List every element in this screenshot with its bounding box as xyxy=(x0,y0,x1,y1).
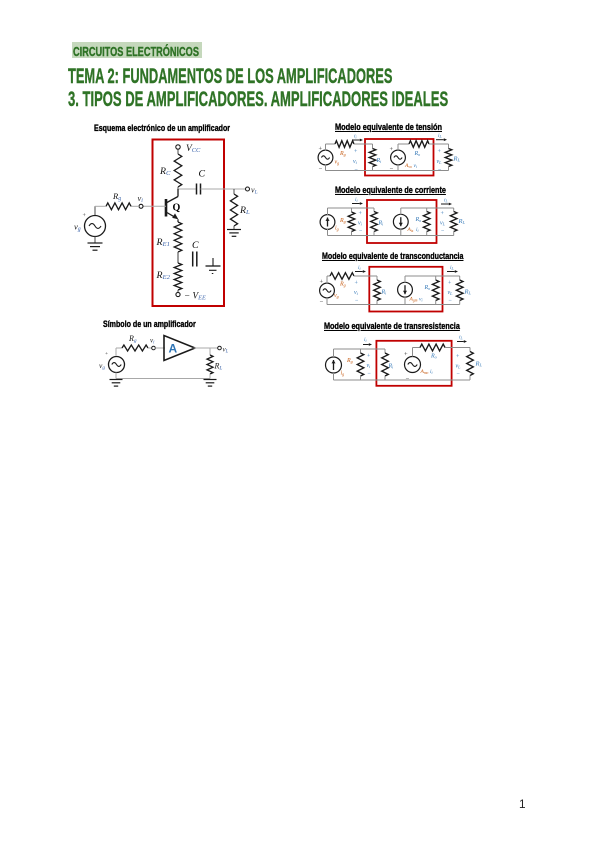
svg-text:vi: vi xyxy=(358,221,363,227)
caption: modelo equivalente de tension xyxy=(335,117,469,135)
output resistor Ro (tension) xyxy=(409,141,429,157)
resistor Rg (tension) xyxy=(335,141,354,157)
svg-text:vi: vi xyxy=(414,163,417,169)
svg-text:Rg: Rg xyxy=(112,191,121,202)
voltage source vg (esquema) xyxy=(74,213,106,237)
red box (modelo corriente) xyxy=(367,200,437,243)
wire C to output vL xyxy=(201,188,246,190)
red box (modelo transresistencia) xyxy=(376,341,451,386)
caption: modelo equivalente de corriente xyxy=(335,180,475,198)
svg-text:−: − xyxy=(368,371,372,377)
resistor Rg (corriente) xyxy=(339,208,355,236)
svg-text:Agm: Agm xyxy=(409,297,418,303)
wire vg to Rg (transconductancia) xyxy=(327,276,330,284)
wires ig (corriente) xyxy=(327,208,329,236)
wire RC to collector node xyxy=(178,187,197,189)
ground below vg (esquema) xyxy=(88,237,103,251)
red box (modelo tension) xyxy=(365,139,434,176)
input resistor Ri (transresistencia) xyxy=(382,349,394,380)
svg-text:RL: RL xyxy=(214,362,223,372)
svg-text:vL: vL xyxy=(440,221,446,227)
current source ig (transresistencia) xyxy=(326,357,345,377)
current arrow iL (transconductancia) xyxy=(447,265,458,273)
resistor Rg (transconductancia) xyxy=(330,273,354,288)
load resistor RL (corriente) xyxy=(450,208,465,236)
caption: esquema electronico de un amplificador xyxy=(94,118,271,136)
svg-text:Ri: Ri xyxy=(381,290,388,296)
wire Rg to Ri (transconductancia) xyxy=(354,275,377,277)
wire base to vi node xyxy=(143,205,166,207)
svg-text:vL: vL xyxy=(223,346,229,355)
svg-text:vL: vL xyxy=(251,186,258,196)
page number xyxy=(519,797,526,811)
wire dep source to Ro (transresistencia) xyxy=(413,348,421,357)
current arrow ii (tension) xyxy=(352,133,363,141)
wire RE2 to -VEE terminal xyxy=(177,290,179,292)
svg-text:Ro: Ro xyxy=(424,285,431,291)
title line 2 xyxy=(68,88,600,112)
svg-text:−: − xyxy=(359,229,363,235)
svg-text:RL: RL xyxy=(475,361,483,368)
dependent current source Gm*vi (transconductancia) xyxy=(398,282,423,302)
ground below RL (simbolo) xyxy=(204,380,217,387)
dependent source Rm*ii (transresistencia) xyxy=(404,351,433,383)
resistor Rg (transresistencia) xyxy=(346,349,364,380)
svg-text:+: + xyxy=(448,281,452,287)
wires dep source (corriente) xyxy=(401,208,454,236)
input resistor Ri (corriente) xyxy=(371,208,384,236)
svg-text:+: + xyxy=(354,149,358,155)
svg-text:+: + xyxy=(390,146,394,153)
svg-text:Amo: Amo xyxy=(420,369,429,375)
red box around amplifier (esquema) xyxy=(153,140,225,307)
wire Ro to RL (tension) xyxy=(429,143,449,145)
svg-text:+: + xyxy=(83,213,87,219)
current arrow iL (transresistencia) xyxy=(457,335,467,343)
wire Rg to Ri (tension) xyxy=(354,143,373,145)
red box (modelo transconductancia) xyxy=(369,267,442,312)
load resistor RL (tension) xyxy=(445,144,460,171)
svg-text:vL: vL xyxy=(448,290,454,296)
svg-text:Rg: Rg xyxy=(128,334,137,344)
bottom wire (simbolo) xyxy=(116,373,210,379)
ground below vg (simbolo) xyxy=(110,380,123,387)
svg-text:Q: Q xyxy=(173,203,181,214)
wire source to Rg xyxy=(95,206,106,215)
svg-text:RC: RC xyxy=(159,166,171,177)
svg-text:Ri: Ri xyxy=(376,158,383,164)
dependent current source Ais*ii (corriente) xyxy=(393,214,418,233)
svg-text:vi: vi xyxy=(419,297,422,303)
svg-text:Rg: Rg xyxy=(346,358,353,364)
node vL terminal (simbolo) xyxy=(218,346,229,355)
svg-text:vg: vg xyxy=(334,293,339,299)
current arrow ii (transresistencia) xyxy=(363,337,372,346)
wire vg to Rg (simbolo) xyxy=(116,348,122,356)
wires ig (transresistencia) xyxy=(333,349,335,380)
wire vg to Rg (tension) xyxy=(326,144,336,151)
svg-text:vg: vg xyxy=(74,222,81,233)
load resistor RL branch xyxy=(230,189,250,230)
svg-text:vi: vi xyxy=(138,193,144,204)
svg-text:−: − xyxy=(441,229,445,235)
ground below RL xyxy=(227,230,241,237)
bypass capacitor C (emitter) xyxy=(192,240,199,267)
bottom wire (corriente) xyxy=(328,235,454,237)
output resistor Ro (corriente) xyxy=(415,208,431,236)
svg-text:+: + xyxy=(438,149,442,155)
resistor RC xyxy=(159,154,182,187)
svg-text:ii: ii xyxy=(364,337,367,343)
svg-text:− VEE: − VEE xyxy=(184,291,206,302)
node vi (simbolo) xyxy=(148,337,155,350)
svg-text:ii: ii xyxy=(416,227,419,233)
labels + vi - (transconductancia) xyxy=(354,281,359,305)
caption: simbolo de un amplificador xyxy=(103,314,223,332)
svg-text:vg: vg xyxy=(335,160,340,166)
svg-text:+: + xyxy=(319,146,323,153)
svg-text:RL: RL xyxy=(453,156,461,163)
transistor Q1 (NPN) xyxy=(166,189,181,222)
svg-text:vi: vi xyxy=(367,363,372,369)
svg-text:Ais: Ais xyxy=(407,227,414,233)
capacitor C (series output) xyxy=(197,169,206,195)
svg-text:RE1: RE1 xyxy=(156,237,170,248)
wire vi to amplifier xyxy=(155,347,165,349)
svg-text:vi: vi xyxy=(150,337,155,346)
header badge CIRCUITOS ELECTRONICOS xyxy=(72,42,201,58)
svg-text:Avo: Avo xyxy=(404,163,412,169)
node -VEE terminal xyxy=(176,291,206,302)
svg-text:Rg: Rg xyxy=(339,151,346,157)
svg-text:RL: RL xyxy=(458,218,466,225)
voltage source vg (tension) xyxy=(318,146,339,174)
svg-text:+: + xyxy=(404,351,408,358)
svg-text:RE2: RE2 xyxy=(156,270,171,281)
svg-text:ii: ii xyxy=(358,265,361,271)
svg-text:−: − xyxy=(355,298,359,304)
labels + vL - (transconductancia) xyxy=(448,281,454,305)
labels + vL - (corriente) xyxy=(440,211,446,235)
current arrow ii (transconductancia) xyxy=(355,265,366,273)
current arrow ii (corriente) xyxy=(352,197,363,205)
bottom wire (transconductancia) xyxy=(327,298,460,305)
title line 1 xyxy=(68,65,598,89)
svg-text:iL: iL xyxy=(444,198,448,204)
svg-text:Ri: Ri xyxy=(388,364,395,370)
output resistor Ro (transresistencia) xyxy=(420,344,445,359)
load resistor RL (simbolo) xyxy=(207,348,222,379)
wire Ro to RL (transresistencia) xyxy=(445,347,470,349)
input resistor Ri (tension) xyxy=(369,144,382,171)
svg-text:iL: iL xyxy=(438,133,442,139)
labels + vL - (transresistencia) xyxy=(456,354,462,378)
svg-text:−: − xyxy=(390,166,394,173)
svg-text:+: + xyxy=(359,211,363,217)
bottom wire (tension) xyxy=(326,165,449,171)
top wire ig to Ri (transresistencia) xyxy=(334,348,386,350)
svg-text:vi: vi xyxy=(353,159,358,165)
caption: modelo equivalente de transconductancia xyxy=(322,246,505,264)
voltage source vg (simbolo) xyxy=(99,351,125,373)
caption: modelo equivalente de transresistencia xyxy=(324,316,496,334)
svg-text:+: + xyxy=(105,351,108,357)
ground near bypass capacitor xyxy=(206,258,221,274)
svg-text:Rg: Rg xyxy=(339,218,346,224)
svg-text:C: C xyxy=(192,240,199,251)
emitter resistor RE1 xyxy=(156,222,182,252)
svg-text:vL: vL xyxy=(456,364,462,370)
svg-text:VCC: VCC xyxy=(186,144,201,154)
svg-text:+: + xyxy=(441,211,445,217)
svg-text:iL: iL xyxy=(450,265,454,271)
current arrow iL (tension) xyxy=(436,133,447,141)
svg-text:−: − xyxy=(319,166,323,173)
labels + vi - (corriente) xyxy=(358,211,363,235)
emitter resistor RE2 xyxy=(156,263,182,290)
svg-text:+: + xyxy=(320,279,324,286)
node vi xyxy=(138,193,144,209)
svg-text:Ri: Ri xyxy=(378,221,385,227)
wires dep source (transconductancia) xyxy=(405,276,460,305)
wire dep source to Ro (tension) xyxy=(398,144,409,151)
svg-text:Ro: Ro xyxy=(414,151,421,157)
output resistor Ro (transconductancia) xyxy=(424,276,440,305)
wire VCC to RC xyxy=(177,149,179,154)
labels + vi - (tension) xyxy=(353,149,359,174)
svg-text:iL: iL xyxy=(459,335,463,341)
svg-text:vL: vL xyxy=(437,159,443,165)
svg-text:ig: ig xyxy=(335,226,339,232)
svg-text:−: − xyxy=(457,372,461,378)
input resistor Ri (transconductancia) xyxy=(374,276,387,305)
svg-text:ii: ii xyxy=(354,133,357,139)
svg-text:ig: ig xyxy=(341,371,345,377)
svg-text:Ro: Ro xyxy=(430,354,437,360)
node vL terminal xyxy=(246,186,258,196)
voltage source vg (transconductancia) xyxy=(320,279,339,306)
wire RE1 to RE2 xyxy=(177,252,179,263)
svg-text:+: + xyxy=(355,281,359,287)
svg-text:RL: RL xyxy=(464,289,472,296)
dependent source Avo*vi (tension) xyxy=(390,146,417,173)
resistor Rg (simbolo) xyxy=(122,334,148,351)
wire amplifier to vL (simbolo) xyxy=(194,347,218,349)
svg-text:RL: RL xyxy=(239,205,250,216)
op-amp symbol A xyxy=(164,336,195,361)
svg-text:vi: vi xyxy=(354,290,359,296)
current source ig (corriente) xyxy=(320,215,339,232)
svg-text:vg: vg xyxy=(99,361,105,371)
svg-text:ii: ii xyxy=(430,369,433,375)
svg-text:A: A xyxy=(169,342,178,356)
current arrow iL (corriente) xyxy=(441,198,452,206)
top wire ig to Ri (corriente) xyxy=(328,207,375,209)
svg-text:Ro: Ro xyxy=(415,217,422,223)
load resistor RL (transconductancia) xyxy=(456,276,471,305)
node VCC terminal xyxy=(176,144,201,154)
svg-text:Rg: Rg xyxy=(339,282,346,288)
svg-text:C: C xyxy=(199,169,206,180)
svg-text:−: − xyxy=(320,299,324,306)
svg-text:−: − xyxy=(449,298,453,304)
labels + vL - (tension) xyxy=(437,149,443,174)
svg-text:+: + xyxy=(456,354,460,360)
svg-text:ii: ii xyxy=(355,197,358,203)
labels + vi - (transresistencia) xyxy=(367,354,372,378)
load resistor RL (transresistencia) xyxy=(467,348,483,381)
svg-text:+: + xyxy=(367,354,371,360)
bottom wire (transresistencia) xyxy=(334,379,471,381)
source resistor Rg xyxy=(106,191,139,210)
